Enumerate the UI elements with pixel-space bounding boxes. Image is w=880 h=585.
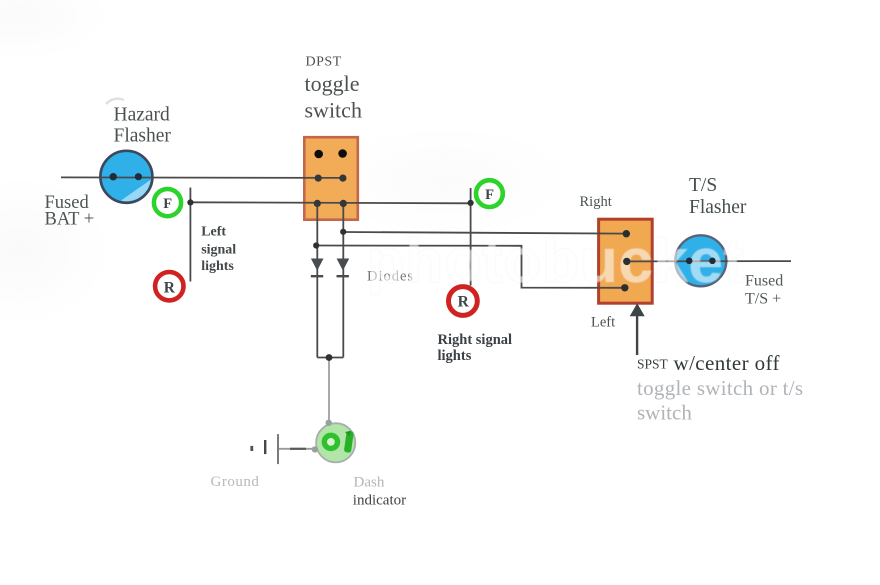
svg-text:toggle: toggle — [305, 71, 360, 96]
wire left-column to S2 bottom terminal — [316, 246, 626, 288]
wire DPST left column down through diode D1 — [316, 203, 318, 357]
switch S2 SPST center-off body — [599, 219, 653, 303]
wire DPST right column down through diode D2 — [342, 203, 344, 357]
svg-text:Dash: Dash — [354, 475, 385, 491]
switch S1 DPST toggle switch body — [304, 137, 358, 220]
wire DPST bottom row from F junction to right F junction — [190, 202, 470, 203]
svg-text:switch: switch — [305, 98, 362, 123]
svg-text:w/center off: w/center off — [674, 351, 780, 375]
T/S flasher FL2 body — [675, 235, 726, 286]
wire left F junction vertical to left R — [189, 188, 191, 282]
junction dot line1 start — [340, 229, 346, 235]
label Right signal lights — [438, 332, 513, 364]
svg-text:R: R — [458, 294, 470, 311]
svg-text:indicator: indicator — [353, 492, 406, 508]
label Hazard Flasher — [114, 104, 172, 146]
svg-text:lights: lights — [201, 259, 234, 274]
svg-text:Ground: Ground — [211, 474, 260, 490]
junction dot line2 start — [313, 242, 319, 248]
hazard flasher terminals — [110, 173, 142, 180]
hazard flasher FL1 body — [100, 151, 168, 221]
svg-text:Left: Left — [201, 225, 226, 240]
svg-text:signal: signal — [201, 243, 236, 258]
node F right (green ring) — [476, 180, 503, 207]
wire joining bar below diodes — [317, 357, 343, 359]
node F left (green ring) — [154, 189, 181, 216]
scan smudge — [106, 99, 124, 104]
svg-text:T/S: T/S — [689, 175, 717, 196]
wire fused BAT+ main line to DPST middle row — [61, 176, 343, 179]
svg-text:Left: Left — [591, 315, 615, 331]
T/S flasher terminals — [686, 258, 716, 265]
label Left signal lights — [201, 225, 236, 275]
svg-text:lights: lights — [438, 348, 472, 364]
svg-text:Hazard: Hazard — [114, 104, 171, 125]
label Fused BAT+ — [45, 193, 95, 230]
arrow to S2 — [630, 303, 645, 355]
junction dot below diodes — [326, 354, 333, 361]
svg-text:R: R — [164, 279, 176, 296]
svg-text:F: F — [163, 196, 172, 212]
DPST middle terminals — [315, 175, 347, 182]
node R left (red ring) — [155, 272, 183, 300]
DPST top terminals — [314, 149, 347, 158]
label T/S Flasher — [689, 175, 747, 218]
wire right F junction vertical to right R — [470, 188, 472, 286]
diode D1 — [311, 259, 324, 277]
label DPST toggle switch — [305, 55, 362, 123]
junction dot right F node — [468, 200, 474, 206]
svg-text:BAT +: BAT + — [45, 210, 95, 230]
wire gray drop to dash indicator — [328, 358, 330, 424]
dash indicator lamp — [312, 420, 356, 463]
DPST bottom terminals — [314, 200, 347, 207]
junction dot left F node — [187, 199, 193, 205]
svg-text:DPST: DPST — [306, 55, 342, 70]
diode D2 — [337, 259, 350, 277]
svg-text:Right: Right — [580, 194, 612, 210]
svg-text:Right signal: Right signal — [438, 332, 513, 348]
label Fused T/S+ — [745, 273, 783, 308]
label toggle switch or t/s switch — [637, 376, 803, 424]
wire right-column to S2 top terminal — [343, 232, 626, 234]
label SPST w/center off — [637, 351, 780, 375]
svg-text:switch: switch — [637, 400, 692, 424]
svg-text:SPST: SPST — [637, 357, 669, 372]
svg-text:F: F — [485, 187, 494, 203]
node R right (red ring) — [449, 287, 478, 316]
ground symbol — [252, 434, 315, 464]
S2 terminals — [621, 230, 630, 291]
wire S2 middle terminal through T/S flasher to fused T/S+ — [627, 260, 791, 262]
svg-text:Flasher: Flasher — [689, 197, 747, 218]
svg-text:Fused: Fused — [745, 273, 783, 290]
svg-text:T/S +: T/S + — [745, 290, 781, 307]
svg-text:toggle switch or t/s: toggle switch or t/s — [637, 376, 803, 400]
svg-text:Flasher: Flasher — [114, 126, 172, 147]
watermark — [367, 227, 744, 296]
label Dash indicator — [353, 475, 406, 509]
